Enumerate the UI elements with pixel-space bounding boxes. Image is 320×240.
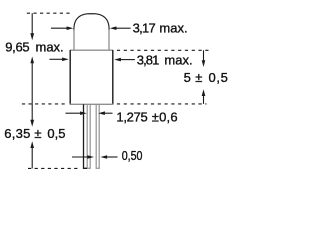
dimension 0,50 right arrow	[106, 156, 118, 158]
dimension 3,81 max. right arrow	[119, 59, 135, 61]
LED body left side	[69, 50, 71, 104]
LED lens dome arc	[74, 14, 109, 31]
svg-text:0,50: 0,50	[122, 148, 143, 163]
svg-text:max.: max.	[164, 53, 192, 68]
LED body right side	[112, 50, 114, 104]
svg-text:max.: max.	[159, 20, 187, 35]
svg-text:±: ±	[195, 70, 202, 85]
dimension 1,275 left arrow	[66, 112, 82, 114]
dashed reference line top (lens tip)	[27, 12, 70, 14]
dimension 5 +/- 0,5 lower line with up arrow	[203, 95, 205, 104]
dimension 3,17 max. left arrow	[51, 27, 68, 29]
dimension 5 +/- 0,5 upper line with down arrow	[203, 50, 205, 61]
svg-text:3,81: 3,81	[137, 53, 160, 68]
LED body bottom	[70, 103, 114, 105]
dimension 6,35 +/- 0,5 upper line with down arrow	[31, 104, 33, 121]
svg-text:6,35: 6,35	[4, 126, 30, 141]
svg-text:±0,6: ±0,6	[152, 110, 178, 125]
svg-text:3,17: 3,17	[133, 20, 156, 35]
lead extension line	[84, 104, 88, 168]
svg-text:1,275: 1,275	[116, 110, 147, 125]
svg-text:0,5: 0,5	[209, 70, 228, 85]
dashed reference line mid-left (body bottom)	[22, 103, 68, 105]
dimension 6,35 +/- 0,5 lower line with up arrow	[31, 147, 33, 169]
left lead	[86, 105, 88, 168]
dimension 9,65 max. lower line with up arrow	[31, 62, 33, 104]
dimension 3,81 max. left arrow	[49, 58, 63, 60]
dashed reference line right upper (body top)	[117, 49, 209, 51]
svg-text:5: 5	[184, 70, 191, 85]
dimension 1,275 right arrow	[103, 112, 112, 114]
svg-text:max.: max.	[36, 40, 64, 55]
svg-text:±: ±	[34, 126, 41, 141]
dimension 0,50 left arrow	[72, 156, 89, 158]
svg-text:9,65: 9,65	[5, 40, 29, 55]
dashed reference line bottom (lead end)	[28, 167, 78, 169]
dashed reference line right lower (body bottom)	[117, 103, 207, 105]
dimension 9,65 max. upper line with down arrow	[31, 13, 33, 34]
dimension 3,17 max. right arrow	[115, 27, 131, 29]
svg-text:0,5: 0,5	[47, 126, 65, 141]
LED lens right side	[108, 30, 110, 51]
right lead	[95, 105, 97, 168]
LED body shoulder	[70, 49, 113, 51]
LED lens left side	[73, 30, 75, 51]
